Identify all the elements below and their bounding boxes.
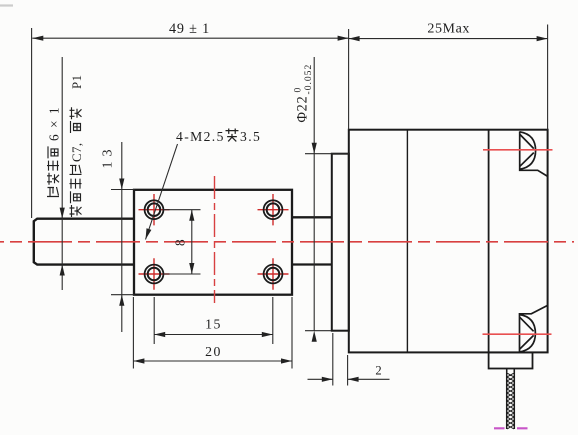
dimension 2 arrows: [322, 377, 333, 382]
svg-text:8: 8: [173, 239, 188, 246]
thread callout leader: [146, 144, 178, 240]
dimension 8 arrows: [189, 210, 194, 221]
dimension dia22 arrows: [312, 143, 317, 154]
dimension dia22 extension top: [305, 153, 349, 155]
dimension 8 extension top: [164, 209, 201, 211]
dimension dia22 line: [313, 57, 315, 331]
svg-text:13: 13: [101, 145, 116, 169]
dimension 15 extension right: [272, 297, 274, 344]
dimension 20 arrows: [133, 358, 144, 363]
dimension 25Max extension right: [547, 25, 549, 130]
shaft (right portion): [292, 217, 332, 264]
dimension 15 line: [154, 334, 273, 336]
lead-wire cable (braided): [507, 369, 515, 430]
svg-text:P1: P1: [70, 74, 84, 89]
svg-text:3.5: 3.5: [240, 129, 261, 144]
dimension 8 extension bottom: [164, 273, 201, 275]
dimension 20 line: [133, 360, 292, 362]
dimension 15 arrows: [154, 332, 165, 337]
dimension 8 line: [191, 210, 193, 274]
dimension 13 line: [121, 142, 123, 332]
dimension 49±1 arrows: [32, 36, 43, 41]
stray mark top-left: [0, 4, 13, 6]
top mounting screw detail: [520, 131, 548, 176]
screw axis line (bottom, red): [483, 333, 552, 335]
svg-text:20: 20: [205, 344, 222, 359]
cable exit bracket: [489, 352, 533, 368]
svg-text:Φ22: Φ22: [295, 96, 311, 123]
main horizontal centerline (red dash-dot): [0, 241, 574, 243]
svg-text:6×1: 6×1: [47, 101, 62, 141]
note text: precision grade C7 preload P1 (rotated): [70, 74, 85, 217]
M2.5 tapped holes (4x): [145, 200, 164, 219]
thread callout leader arrow: [146, 228, 152, 239]
dimension 49±1 / 25Max shared extension: [348, 29, 350, 130]
dimension 20 extension left: [132, 297, 134, 369]
motor body outline: [349, 130, 548, 353]
note text: ball screw 6x1 (rotated): [47, 101, 62, 197]
dimension 25Max line: [349, 38, 548, 40]
dimension 25Max arrows: [349, 36, 360, 41]
svg-text:15: 15: [205, 317, 222, 332]
flange vertical centerline (red dash-dot): [214, 176, 216, 303]
dimension 13 extension top: [111, 189, 135, 191]
motor internal parting line: [406, 130, 408, 353]
screw axis line (top, red): [483, 149, 553, 151]
svg-text:25Max: 25Max: [427, 21, 470, 36]
dimension 49±1 extension left: [31, 28, 33, 218]
dimension 20 extension right: [291, 297, 293, 369]
bottom mounting screw detail: [520, 305, 548, 352]
svg-text:2: 2: [375, 363, 381, 377]
dimension 2 lines: [308, 378, 390, 380]
dimension 2 extension right: [347, 355, 349, 386]
dimension 15 extension left: [153, 297, 155, 344]
hole centerline crosshairs: [139, 194, 170, 225]
dimension 49±1 line: [32, 37, 348, 39]
dimension 13 arrows: [119, 179, 124, 190]
svg-text:49 ± 1: 49 ± 1: [169, 21, 210, 37]
motor end-cap parting line: [488, 130, 490, 353]
mounting flange plate (front view): [134, 190, 292, 295]
motor pilot boss (22 dia side view): [332, 154, 349, 331]
ball screw shaft (left portion): [34, 219, 134, 265]
dimension dia22 extension bottom: [305, 330, 331, 332]
dimension 13 extension bottom: [111, 294, 135, 296]
ball screw diameter dimension line: [61, 57, 63, 290]
svg-text:-0.052: -0.052: [303, 64, 314, 95]
svg-text:C7,: C7,: [70, 142, 84, 162]
cable break line (magenta): [494, 427, 528, 429]
dimension 2 extension left: [332, 333, 334, 386]
svg-text:0: 0: [293, 88, 304, 93]
dimension text dia22 with tolerance: [293, 64, 315, 123]
svg-text:4-M2.5: 4-M2.5: [176, 129, 225, 144]
ball screw diameter arrows: [60, 208, 65, 219]
